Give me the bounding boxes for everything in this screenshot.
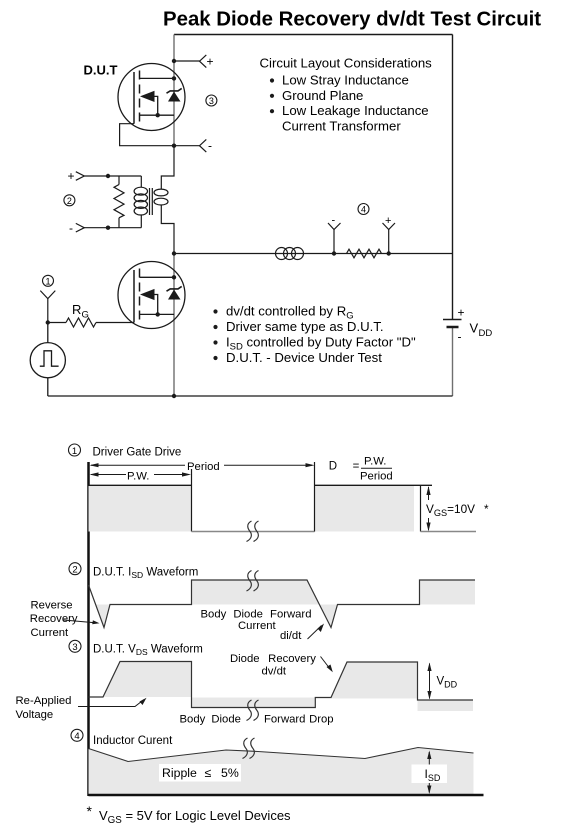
svg-text:Driver Gate Drive: Driver Gate Drive — [93, 447, 182, 459]
wire middle rail — [174, 253, 453, 255]
svg-text:di/dt: di/dt — [280, 630, 302, 642]
axis waveforms — [87, 462, 90, 796]
svg-text:-: - — [208, 139, 212, 153]
svg-text:≤: ≤ — [205, 766, 212, 780]
waveform 2 fill tail — [420, 580, 476, 605]
svg-text:D.U.T. VDS Waveform: D.U.T. VDS Waveform — [93, 644, 203, 658]
svg-text:Body Diode Forward: Body Diode Forward — [201, 609, 312, 621]
node dot source terminal — [172, 144, 176, 148]
svg-text:+: + — [68, 169, 75, 183]
svg-text:-: - — [332, 215, 336, 227]
diode D1 DUT body diode — [167, 88, 182, 101]
svg-text:1: 1 — [45, 277, 50, 287]
arrow ISD bottom — [427, 783, 431, 794]
svg-text:D: D — [329, 461, 337, 473]
svg-text:Body Diode: Body Diode — [180, 714, 241, 726]
waveform 4 inductor current fill — [89, 748, 474, 795]
svg-text:-: - — [69, 221, 73, 235]
waveform 3 fill plateau 1 — [103, 662, 192, 698]
svg-text:Current Transformer: Current Transformer — [282, 119, 401, 134]
node dot probe minus — [332, 251, 336, 255]
svg-text:2: 2 — [67, 196, 72, 206]
node dot driver source join — [156, 312, 160, 316]
label ISD box — [412, 765, 448, 784]
svg-text:D.U.T. - Device Under Test: D.U.T. - Device Under Test — [226, 350, 382, 365]
svg-text:+: + — [207, 54, 214, 68]
waveform 3 fill low band — [192, 698, 316, 708]
transistor Q1 D.U.T. MOSFET — [118, 64, 185, 131]
bullets layout list — [270, 78, 274, 113]
resistor RG — [48, 318, 134, 327]
label body diode forward drop — [180, 714, 334, 726]
node dot probe plus — [387, 251, 391, 255]
svg-text:Low Stray Inductance: Low Stray Inductance — [282, 73, 409, 88]
pulse generator V1 — [30, 323, 65, 397]
svg-text:VGS = 5V for Logic Level Devic: VGS = 5V for Logic Level Devices — [99, 808, 291, 826]
svg-text:Low Leakage Inductance: Low Leakage Inductance — [282, 103, 429, 118]
label diode recovery dvdt — [230, 653, 316, 678]
svg-text:Peak Diode Recovery dv/dt Test: Peak Diode Recovery dv/dt Test Circuit — [163, 9, 541, 31]
node dot transformer top — [106, 174, 110, 178]
wire top rail — [174, 34, 453, 36]
inductor T1 secondary — [154, 146, 174, 254]
svg-text:Reverse: Reverse — [31, 599, 73, 611]
terminal plus top — [174, 55, 206, 68]
svg-text:DD: DD — [479, 328, 493, 339]
node 3 waveform label — [69, 640, 81, 653]
node dot DUT drain — [172, 76, 176, 80]
waveform 2 fill dip — [96, 605, 110, 628]
waveform 1 gate drive pulse 2 — [315, 462, 433, 532]
svg-text:Re-Applied: Re-Applied — [16, 695, 72, 707]
dimension VGS — [426, 486, 430, 532]
arrow re-applied — [78, 698, 147, 707]
dimension PW — [91, 474, 189, 476]
arrow di/dt — [308, 624, 325, 640]
wire bottom rail — [48, 395, 453, 397]
svg-text:Forward Drop: Forward Drop — [264, 714, 334, 726]
svg-text:V: V — [470, 321, 479, 336]
arrow reverse recovery — [64, 620, 100, 624]
svg-text:Current: Current — [31, 627, 70, 639]
waveform 2 fill dip 2 — [319, 605, 337, 628]
label re-applied voltage — [16, 695, 72, 721]
waveform 2 fill body conduction — [192, 580, 320, 605]
svg-text:Voltage: Voltage — [16, 709, 54, 721]
waveform 1 low line — [192, 531, 315, 533]
waveform 4 top trace — [89, 748, 474, 762]
resistor transformer burden — [114, 176, 124, 228]
svg-text:1: 1 — [72, 446, 77, 457]
probe minus node 4 — [328, 223, 341, 254]
probe node 1 — [40, 291, 55, 323]
break mark waveform 2 — [247, 571, 259, 592]
svg-text:4: 4 — [74, 731, 79, 742]
wire DUT gate loop — [120, 124, 174, 146]
transistor Q2 driver MOSFET — [118, 262, 185, 329]
waveform 3 fill plateau 2 — [331, 662, 418, 699]
arrow diode recovery — [321, 657, 333, 673]
svg-text:D.U.T. ISD Waveform: D.U.T. ISD Waveform — [93, 567, 198, 581]
svg-text:5%: 5% — [221, 766, 239, 780]
node 2 circled — [64, 195, 75, 206]
svg-text:VGS=10V*: VGS=10V* — [426, 502, 489, 518]
svg-text:Recovery: Recovery — [30, 613, 78, 625]
wire driver vertical — [173, 254, 175, 397]
waveform 1 tail line — [421, 531, 477, 533]
svg-text:2: 2 — [72, 565, 77, 576]
wire right rail lower — [452, 327, 454, 396]
svg-text:*: * — [87, 803, 93, 819]
node 1 circled — [43, 275, 54, 286]
svg-text:Inductor Curent: Inductor Curent — [93, 735, 173, 747]
waveform 3 trace — [89, 662, 474, 708]
inductor L1 middle rail — [276, 248, 304, 260]
terminal minus top — [174, 139, 206, 152]
node dot middle rail secondary — [172, 251, 176, 255]
svg-text:R: R — [72, 302, 81, 317]
terminal plus left — [76, 172, 142, 181]
svg-text:3: 3 — [209, 96, 214, 106]
dvdt notes text — [226, 304, 416, 366]
label reverse recovery current — [30, 599, 78, 639]
node dot DUT source join — [156, 113, 160, 117]
resistor middle rail — [347, 249, 382, 258]
node 2 waveform label — [69, 563, 81, 576]
svg-text:dv/dt: dv/dt — [262, 666, 287, 678]
diode D2 driver body diode — [167, 286, 182, 299]
terminal minus left — [76, 223, 142, 232]
svg-text:G: G — [82, 310, 89, 321]
svg-text:P.W.: P.W. — [127, 471, 149, 483]
svg-text:3: 3 — [72, 642, 77, 653]
svg-text:Circuit Layout Considerations: Circuit Layout Considerations — [260, 56, 433, 71]
svg-text:Ground Plane: Ground Plane — [282, 88, 363, 103]
transformer T1 core — [150, 188, 153, 215]
waveform 4 baseline — [89, 794, 484, 797]
svg-text:4: 4 — [361, 205, 366, 215]
node dot drain terminal — [172, 59, 176, 63]
svg-text:Diode Recovery: Diode Recovery — [230, 653, 316, 665]
battery VDD — [443, 320, 462, 328]
svg-text:-: - — [458, 330, 462, 344]
waveform 1 gate drive pulse 1 — [89, 469, 192, 532]
circuit layout considerations text — [260, 56, 433, 134]
probe plus node 4 — [383, 223, 396, 254]
node 4 waveform label — [71, 729, 83, 742]
break mark waveform 1 — [247, 521, 259, 542]
node 1 waveform label — [69, 444, 81, 457]
svg-text:+: + — [385, 215, 391, 227]
bullets notes list — [213, 309, 217, 360]
dimension period — [91, 464, 312, 466]
svg-text:Current: Current — [238, 620, 277, 632]
node 4 circled — [358, 204, 369, 215]
svg-text:Driver same type as D.U.T.: Driver same type as D.U.T. — [226, 319, 384, 334]
break mark waveform 4 — [243, 738, 255, 759]
dimension VDD — [427, 663, 431, 700]
svg-text:+: + — [458, 306, 465, 320]
inductor T1 primary — [134, 176, 147, 228]
svg-text:Period: Period — [360, 471, 393, 483]
waveform 2 trace — [89, 580, 476, 628]
node dot transformer bottom — [106, 226, 110, 230]
wire DUT vertical — [173, 35, 175, 146]
node dot bottom rail — [172, 394, 176, 398]
svg-text:P.W.: P.W. — [364, 456, 386, 468]
svg-text:=: = — [353, 461, 360, 473]
label body diode forward current — [201, 609, 312, 633]
svg-text:Ripple: Ripple — [162, 766, 197, 780]
svg-text:D.U.T: D.U.T — [84, 63, 118, 78]
node dot gate drive — [46, 320, 50, 324]
svg-text:VDD: VDD — [437, 676, 458, 690]
break mark waveform 3 — [247, 700, 259, 721]
node 3 circled — [206, 95, 217, 106]
arrow ISD top — [427, 751, 431, 765]
node dot driver drain — [172, 275, 176, 279]
waveform 3 fill tail band — [418, 700, 474, 711]
label ripple — [159, 764, 241, 782]
wire right rail upper — [452, 35, 454, 320]
